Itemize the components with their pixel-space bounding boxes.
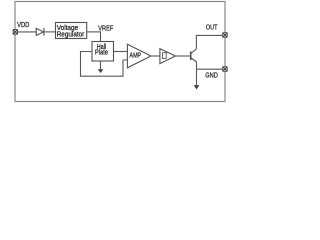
GND pad — [223, 67, 227, 71]
svg-text:OUT: OUT — [206, 24, 218, 31]
wire diode to regulator — [44, 31, 56, 33]
hysteresis symbol — [162, 53, 167, 59]
diode D1 — [36, 28, 44, 36]
wire gnd rail to GND pad — [197, 68, 224, 70]
chip boundary border — [15, 2, 225, 102]
wire hall right output to amp top input — [114, 51, 128, 53]
wire collector up to OUT — [196, 35, 223, 49]
wire VDD pad to diode — [17, 31, 36, 33]
schmitt trigger U2 — [160, 49, 176, 64]
wire VREF down to hall plate — [100, 31, 102, 41]
voltage regulator block — [56, 23, 87, 39]
svg-text:Regulator: Regulator — [57, 31, 85, 38]
wire schmitt to transistor base — [176, 55, 191, 57]
VDD pad — [13, 30, 17, 34]
svg-text:AMP: AMP — [130, 53, 142, 60]
wire regulator to VREF corner — [87, 31, 101, 33]
svg-text:GND: GND — [205, 72, 218, 79]
ground arrow below emitter — [196, 69, 198, 86]
OUT pad — [223, 33, 227, 37]
svg-text:Plate: Plate — [95, 50, 108, 57]
hall plate block — [92, 42, 114, 62]
op-amp AMP — [127, 44, 151, 68]
svg-text:VDD: VDD — [17, 22, 29, 29]
transistor Q1 — [191, 49, 197, 62]
wire hall left output loop to amp bottom input — [81, 52, 128, 77]
wire amp to schmitt trigger — [151, 55, 160, 57]
wire emitter down to gnd rail — [196, 62, 198, 69]
ground arrow below hall plate — [100, 61, 102, 70]
